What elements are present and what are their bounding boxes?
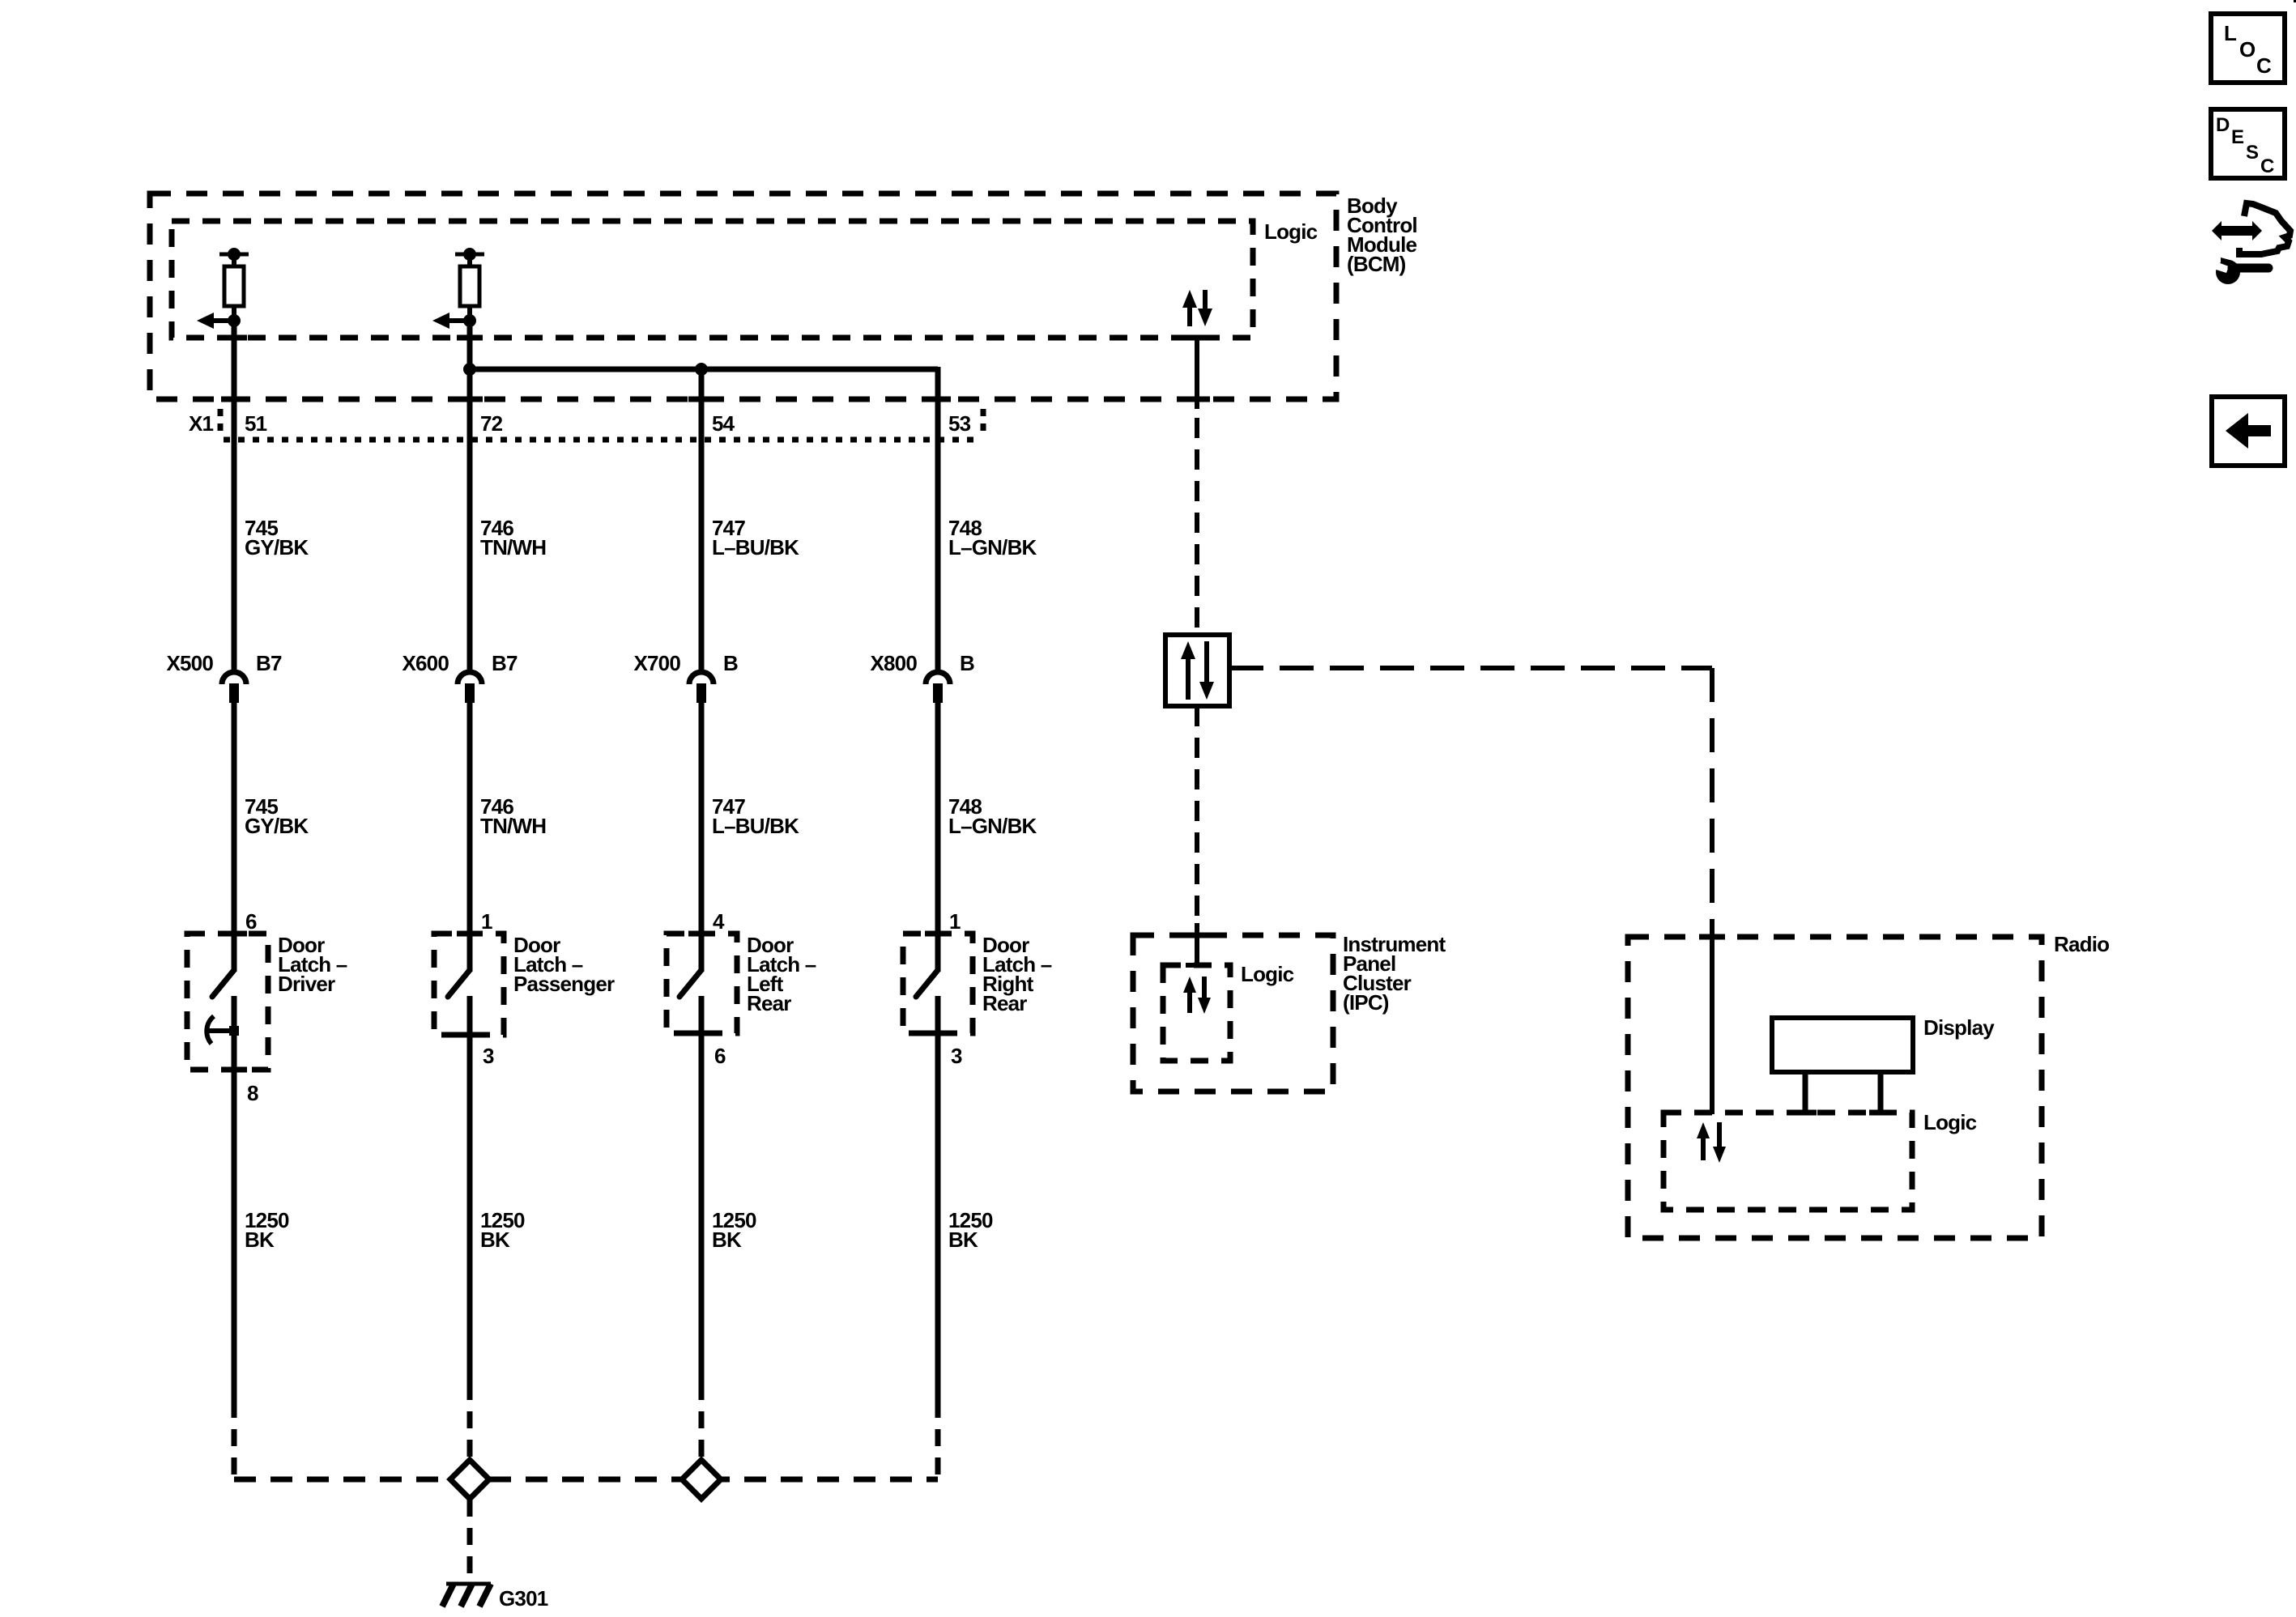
serial comm box arrows xyxy=(1186,656,1191,700)
svg-text:TN/WH: TN/WH xyxy=(480,814,546,838)
svg-text:6: 6 xyxy=(245,909,257,934)
svg-text:72: 72 xyxy=(480,411,503,436)
connector X500 female half xyxy=(222,672,246,684)
svg-text:X800: X800 xyxy=(870,651,917,675)
switch blade Door Latch Driver xyxy=(212,970,234,997)
display block (Radio) xyxy=(1772,1018,1913,1072)
wire crossing tick at BCM bottom edge x=580 xyxy=(457,397,483,402)
svg-text:B7: B7 xyxy=(256,651,282,675)
node resistor R2 top junction dot xyxy=(463,248,476,261)
svg-text:Display: Display xyxy=(1923,1015,1995,1040)
wire dashed drop W2 to splice xyxy=(467,1383,473,1457)
icon electrical repair: harness outline xyxy=(2239,203,2290,254)
wire crossing tick at IPC top edge xyxy=(1184,933,1210,938)
wire 1250 BK from Door Latch Right Rear xyxy=(935,1033,941,1401)
svg-text:X1: X1 xyxy=(189,411,214,436)
wire crossing tick at Door Latch Right Rear box top xyxy=(925,931,951,937)
icon electrical repair: wrench xyxy=(2216,260,2240,284)
svg-text:1: 1 xyxy=(481,909,492,934)
serial data comm box xyxy=(1165,635,1229,706)
wire serial solid into Radio xyxy=(1710,919,1715,1114)
svg-text:B7: B7 xyxy=(492,651,518,675)
icon DESC box xyxy=(2211,109,2285,178)
wire serial dashed branch to Radio (horizontal) xyxy=(1229,666,1712,670)
door latch switch box: Door Latch Driver xyxy=(187,934,268,1070)
wire resistor R2 bottom stub xyxy=(467,306,472,324)
wire 747 below connector xyxy=(699,701,705,972)
wire 748 drop from bus corner (W4 upper) xyxy=(935,367,941,670)
svg-text:BK: BK xyxy=(948,1228,978,1252)
svg-text:D: D xyxy=(2216,114,2230,136)
svg-text:(BCM): (BCM) xyxy=(1347,252,1406,276)
wire crossing tick serial at logic edge xyxy=(1184,335,1210,341)
svg-text:L–GN/BK: L–GN/BK xyxy=(948,814,1037,838)
connector X800 female half xyxy=(926,672,950,684)
icon back-arrow box xyxy=(2212,397,2285,466)
door latch switch box: Door Latch Left Rear xyxy=(667,934,737,1033)
svg-text:O: O xyxy=(2239,37,2256,62)
wire crossing tick at Door Latch Right Rear box bottom xyxy=(925,1031,951,1036)
svg-text:C: C xyxy=(2260,155,2274,177)
svg-text:B: B xyxy=(723,651,738,675)
svg-text:GY/BK: GY/BK xyxy=(245,814,309,838)
wire serial data solid stub below BCM logic xyxy=(1195,338,1199,409)
svg-text:Logic: Logic xyxy=(1241,962,1294,986)
wire 747 drop from bus (W3 upper) xyxy=(699,369,705,670)
connector X1 dotted line xyxy=(224,437,981,443)
wire crossing tick at BCM bottom edge x=289 xyxy=(221,397,247,402)
node driver linkage contact xyxy=(229,1026,239,1036)
wire dashed drop from splice S1 to ground xyxy=(467,1500,473,1581)
switch lower contact Door Latch Right Rear xyxy=(935,996,941,1038)
node bus junction dot at wire 747 xyxy=(695,363,708,376)
svg-text:54: 54 xyxy=(712,411,735,436)
svg-text:Logic: Logic xyxy=(1923,1110,1977,1134)
page corner mark xyxy=(2294,0,2296,2)
svg-text:3: 3 xyxy=(951,1044,962,1068)
svg-text:Rear: Rear xyxy=(747,991,791,1015)
svg-text:Passenger: Passenger xyxy=(513,972,615,996)
wire crossing tick W2 at logic box edge xyxy=(457,335,483,341)
icon LOC box xyxy=(2211,14,2285,83)
ground G301 symbol xyxy=(446,1582,491,1586)
wire resistor R2 top stub xyxy=(467,254,472,268)
switch blade Door Latch Left Rear xyxy=(679,970,701,997)
svg-text:(IPC): (IPC) xyxy=(1343,990,1389,1015)
switch lower contact Door Latch Passenger xyxy=(467,996,473,1040)
node R1 output junction dot xyxy=(228,314,241,327)
connector X800 male terminal xyxy=(933,683,943,703)
Radio outer dashed box xyxy=(1628,937,2042,1238)
wire ground bus (dashed) xyxy=(234,1477,938,1483)
splice S1 diamond xyxy=(450,1460,489,1499)
svg-text:L–BU/BK: L–BU/BK xyxy=(712,535,799,560)
wire crossing tick at BCM bottom edge x=1158 xyxy=(925,397,951,402)
splice S2 diamond xyxy=(682,1460,721,1499)
connector X700 male terminal xyxy=(696,683,706,703)
wire serial dashed branch to Radio (vertical) xyxy=(1710,668,1715,919)
connector X500 male terminal xyxy=(229,683,239,703)
Radio Logic dashed box xyxy=(1663,1113,1912,1210)
icon electrical repair: double arrow xyxy=(2221,226,2252,236)
svg-text:TN/WH: TN/WH xyxy=(480,535,546,560)
svg-text:Driver: Driver xyxy=(278,972,335,996)
serial terminal bar at IPC logic xyxy=(1186,963,1208,968)
svg-text:X700: X700 xyxy=(633,651,680,675)
BCM internal Logic dashed box xyxy=(172,221,1253,338)
svg-text:3: 3 xyxy=(483,1044,494,1068)
display right leg xyxy=(1878,1072,1884,1110)
svg-text:1: 1 xyxy=(949,909,961,934)
wire 1250 BK from Door Latch Driver xyxy=(232,1070,237,1401)
wire internal bus from 746 node xyxy=(470,367,938,372)
wire serial dashed from comm box to IPC xyxy=(1195,706,1199,923)
wire 1250 BK from Door Latch Left Rear xyxy=(699,1033,705,1383)
wire crossing tick at Door Latch Driver box bottom xyxy=(221,1067,247,1073)
display left leg xyxy=(1803,1072,1808,1110)
resistor R1 body xyxy=(224,266,244,306)
svg-text:C: C xyxy=(2256,53,2272,78)
icon back-arrow glyph xyxy=(2226,413,2248,449)
wire 1250 BK from Door Latch Passenger xyxy=(467,1035,473,1383)
wire 748 below connector xyxy=(935,701,941,972)
svg-text:E: E xyxy=(2231,126,2244,148)
svg-text:BK: BK xyxy=(712,1228,742,1252)
svg-text:S: S xyxy=(2246,142,2259,164)
svg-text:BK: BK xyxy=(480,1228,510,1252)
svg-text:L: L xyxy=(2224,21,2237,45)
connector X1 left boundary mark xyxy=(218,409,224,438)
svg-text:Radio: Radio xyxy=(2054,932,2109,956)
svg-text:53: 53 xyxy=(948,411,971,436)
connector X1 right boundary mark xyxy=(981,409,986,438)
door latch switch box: Door Latch Passenger xyxy=(434,934,504,1035)
wire crossing tick at BCM bottom edge x=866 xyxy=(688,397,714,402)
wire 745 BCM output (W1 upper) xyxy=(232,321,237,670)
svg-text:BK: BK xyxy=(245,1228,275,1252)
Radio logic arrows xyxy=(1701,1135,1706,1160)
wire 746 below connector xyxy=(467,701,473,972)
svg-text:Rear: Rear xyxy=(982,991,1027,1015)
wire resistor R1 top stub xyxy=(232,254,236,268)
display leg tick right xyxy=(1869,1110,1892,1116)
Instrument Panel Cluster outer dashed box xyxy=(1133,935,1333,1091)
IPC logic arrows xyxy=(1187,989,1192,1013)
node R2 output junction dot xyxy=(463,314,476,327)
svg-text:L–GN/BK: L–GN/BK xyxy=(948,535,1037,560)
switch lower contact Door Latch Left Rear xyxy=(699,996,705,1038)
resistor R2 top rail xyxy=(455,253,484,257)
svg-text:51: 51 xyxy=(245,411,267,436)
switch lower contact Door Latch Driver xyxy=(232,996,237,1074)
wire dashed drop W1 to ground bus xyxy=(232,1401,237,1482)
connector X600 female half xyxy=(458,672,482,684)
signal arrow from R2 node xyxy=(449,318,470,323)
svg-text:B: B xyxy=(960,651,974,675)
wire crossing tick at Door Latch Driver box top xyxy=(221,931,247,937)
wire 746 BCM output (W2 upper) xyxy=(467,321,473,670)
svg-text:X600: X600 xyxy=(402,651,449,675)
svg-text:6: 6 xyxy=(714,1044,726,1068)
resistor R1 top rail xyxy=(219,253,249,257)
key cylinder linkage (driver latch) xyxy=(207,1016,214,1044)
svg-text:G301: G301 xyxy=(499,1586,548,1611)
wire 745 below connector xyxy=(232,701,237,972)
switch blade Door Latch Passenger xyxy=(448,970,470,997)
door latch switch box: Door Latch Right Rear xyxy=(903,934,973,1033)
Body Control Module (BCM) outer dashed box xyxy=(150,194,1336,399)
IPC Logic dashed box xyxy=(1163,965,1230,1061)
svg-text:4: 4 xyxy=(713,909,725,934)
display leg tick left xyxy=(1794,1110,1817,1116)
wire crossing tick at Door Latch Passenger box bottom xyxy=(457,1032,483,1038)
svg-text:L–BU/BK: L–BU/BK xyxy=(712,814,799,838)
wire serial solid into IPC xyxy=(1195,923,1199,965)
wire crossing tick at Door Latch Passenger box top xyxy=(457,931,483,937)
svg-text:Logic: Logic xyxy=(1264,219,1318,244)
signal arrow from R1 node xyxy=(213,318,234,323)
wire resistor R1 bottom stub xyxy=(232,306,236,324)
resistor R2 body xyxy=(460,266,479,306)
wire crossing tick at Door Latch Left Rear box top xyxy=(688,931,714,937)
wire crossing tick W1 at logic box edge xyxy=(221,335,247,341)
serial data arrows in BCM logic box xyxy=(1187,304,1192,326)
svg-text:X500: X500 xyxy=(166,651,213,675)
wire dashed drop W4 to ground bus xyxy=(935,1401,941,1482)
connector X600 male terminal xyxy=(465,683,475,703)
connector X700 female half xyxy=(689,672,714,684)
wire dashed drop W3 to splice xyxy=(699,1383,705,1457)
wire crossing tick at Door Latch Left Rear box bottom xyxy=(688,1031,714,1036)
wire crossing tick serial at BCM bottom xyxy=(1184,397,1210,402)
wire serial data dashed down to comm node xyxy=(1195,418,1199,635)
wire crossing tick at Radio top edge xyxy=(1699,934,1725,940)
svg-text:8: 8 xyxy=(247,1081,258,1105)
switch blade Door Latch Right Rear xyxy=(916,970,938,997)
node bus junction dot at wire 746 xyxy=(463,363,476,376)
svg-text:GY/BK: GY/BK xyxy=(245,535,309,560)
node resistor R1 top junction dot xyxy=(228,248,241,261)
